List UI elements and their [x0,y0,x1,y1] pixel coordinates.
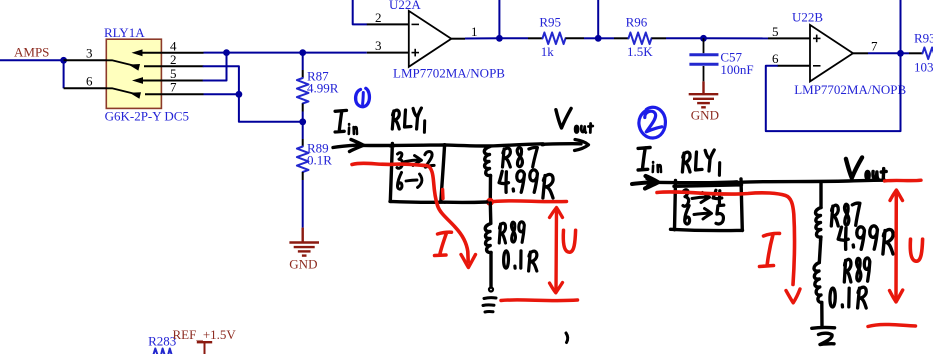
node junction at C57 [700,35,707,42]
svg-text:6: 6 [86,74,93,89]
node junction at R87 top [299,49,306,56]
label U22B [792,10,823,25]
annotation input arrow 2 [632,176,658,189]
annotation wire mid 1 [489,203,493,223]
wire feedback loop U22B [766,0,901,131]
resistor R96 [629,33,652,45]
wire node up offscreen [597,0,599,38]
annotation wire top 1 [362,144,581,146]
annotation 4.99R label 2 [838,226,893,254]
annotation red tick 1 [441,190,445,199]
pin 5 of U22B [768,24,810,39]
annotation Iin label 1 [335,110,357,134]
op-amp U22A [409,11,452,67]
wire junction down to pin 6 [63,60,65,88]
relay contact arrow row 5 [132,77,161,84]
pin 1 of U22A [451,24,477,39]
net label AMPS [14,45,49,60]
svg-text:U22B: U22B [792,10,823,25]
op-amp U22B [810,25,853,82]
label R283 [148,334,176,349]
svg-text:7: 7 [170,80,177,95]
label GND right [691,108,719,123]
power symbol REF_+1.5V [197,342,212,354]
annotation red U arrow 2 [890,190,903,302]
annotation R89 label 2 [844,258,870,282]
relay RLY1A designator [104,25,145,40]
annotation ground 1 [483,288,496,313]
resistor R93 [923,48,933,60]
svg-text:4.99R: 4.99R [307,81,339,96]
svg-text:U22A: U22A [389,0,421,12]
relay armature from pin 3 [106,60,137,66]
svg-text:6: 6 [772,51,779,66]
annotation 0.1R label 2 [830,287,866,308]
svg-text:GND: GND [691,108,719,123]
label 1.5K [627,44,653,59]
node U22B output junction [897,50,904,57]
pin 7 of U22B [853,39,878,54]
relay RLY1A part number G6K-2P-Y DC5 [105,109,189,124]
annotation Vout label 1 [556,108,593,132]
pin 3 of U22A [367,38,409,53]
annotation circled 1 [356,88,370,106]
capacitor C57 [689,38,718,94]
svg-text:R93: R93 [914,31,933,46]
annotation wire box to junction 1 [445,200,487,204]
annotation wire top 2 [653,180,885,183]
annotation red current path 1 [352,163,476,267]
pin 4 of RLY1A [161,39,203,54]
node junction pin4/pin5 [223,49,230,56]
pin 3 of RLY1A [64,46,107,61]
wire output to R95 [499,37,542,39]
relay RLY1A body [106,39,161,108]
pin 2 of U22A [367,10,409,25]
node junction pin7 on vertical [236,91,243,98]
annotation 6 to 5 label [685,205,724,224]
resistor R87 [297,78,309,104]
relay armature from pin 6 [106,88,138,94]
label LMP7702MA/NOPB upper [393,66,505,81]
label 103 [914,60,933,75]
annotation 6 to 7 label [397,173,421,190]
wire pin5 up to pin4 row [204,53,227,81]
label R95 [539,15,561,30]
relay contact arrow row 7 [130,92,162,99]
label 0.1R [307,153,332,168]
svg-text:2: 2 [170,52,177,67]
annotation resistor R89 coil 2 [814,263,822,326]
svg-text:1.5K: 1.5K [627,44,653,59]
annotation ground 2 [812,327,835,344]
pin 5 of RLY1A [161,66,203,81]
svg-text:G6K-2P-Y DC5: G6K-2P-Y DC5 [105,109,189,124]
node junction R87/R89 [299,118,306,125]
pin 6 of U22B [772,51,810,66]
node junction R95/R96 [595,35,602,42]
relay contact arrow row 4 [132,49,162,56]
annotation red U arrow 1 [550,208,563,293]
label 4.99R [307,81,339,96]
annotation R87 label 2 [831,203,860,226]
annotation 3 to 2 label [397,151,434,168]
svg-text:LMP7702MA/NOPB: LMP7702MA/NOPB [794,82,906,97]
resistor R283 partial [152,349,174,354]
annotation 0.1R label 1 [504,251,537,271]
wire U22A output [465,37,499,39]
annotation red I label 1 [435,232,452,255]
svg-text:103: 103 [914,60,933,75]
wire AMPS to junction [0,59,64,61]
svg-text:REF_+1.5V: REF_+1.5V [173,327,237,342]
svg-text:3: 3 [86,46,93,61]
annotation red current path 2 [657,192,800,303]
annotation red junction dot 1 [486,198,494,206]
svg-text:LMP7702MA/NOPB: LMP7702MA/NOPB [393,66,505,81]
svg-text:R96: R96 [626,15,648,30]
wire C57 node to pin5 [704,37,769,39]
svg-text:R95: R95 [539,15,561,30]
annotation input arrow 1 [333,140,364,152]
svg-text:0.1R: 0.1R [307,153,332,168]
annotation red underline Vout 2 [885,178,922,182]
resistor R89 [297,147,309,173]
annotation Vout arrow 1 [575,140,589,151]
svg-text:2: 2 [375,10,382,25]
annotation resistor R89 coil 1 [485,224,491,288]
annotation 4.99R label 1 [499,170,553,198]
annotation relay box 1 [390,143,445,202]
node junction at AMPS split [60,57,67,64]
annotation red bracket bottom 1 [501,298,578,302]
wire pin2 down to R89 node [204,66,303,122]
annotation RLY1 label 2 [682,150,719,175]
resistor R95 [543,33,566,45]
svg-text:GND: GND [289,257,317,272]
label REF_+1.5V [173,327,237,342]
annotation relay box 2 [671,179,743,231]
annotation red U label 1 [563,230,575,252]
annotation Vout label 2 [846,157,886,179]
annotation R89 label 1 [499,222,524,243]
label 100nF [720,62,753,77]
annotation 3 to 4 label [683,190,722,206]
annotation R87 label 1 [503,147,538,167]
label GND left [289,257,317,272]
wire pin7 to vertical [204,93,239,95]
wire R87 top [302,53,304,78]
label R93 [914,31,933,46]
label U22A [389,0,421,12]
wire R87 to node [302,104,304,122]
svg-text:3: 3 [375,38,382,53]
annotation red line bottom 2 [868,324,916,326]
svg-text:7: 7 [871,39,878,54]
label C57 [720,50,742,65]
wire node to R96 [598,37,628,39]
pin 7 of RLY1A [161,80,203,95]
svg-text:1: 1 [471,24,478,39]
pin 2 of RLY1A [161,52,203,67]
relay contact arrow row 2 [129,64,162,71]
ground symbol GND right [689,94,719,107]
annotation circled 2 [639,107,666,138]
annotation stray mark [566,333,568,343]
node U22A output junction [496,35,503,42]
annotation RLY1 label 1 [392,108,424,132]
pin 6 of RLY1A [64,74,107,89]
annotation resistor R87 coil 1 [484,147,490,200]
wire U22B output [868,52,901,54]
annotation wire R87 top 2 [819,183,822,208]
label R89 [307,141,329,156]
wire R96 to C57 node [652,37,704,39]
wire R89 to ground [302,172,304,243]
wire feedback up from output [498,0,500,38]
label 1k [541,44,555,59]
annotation Iin label 2 [638,148,661,173]
wire node to R89 [302,122,304,147]
svg-text:RLY1A: RLY1A [104,25,145,40]
annotation red I label 2 [760,233,780,266]
annotation resistor R87 coil 2 [816,208,822,263]
svg-text:100nF: 100nF [720,62,753,77]
svg-text:AMPS: AMPS [14,45,49,60]
svg-text:1k: 1k [541,44,555,59]
wire output to R93 [901,52,923,54]
wire feedback into pin 2 [353,0,367,24]
label LMP7702MA/NOPB lower [794,82,906,97]
svg-text:5: 5 [772,24,779,39]
label R87 [307,69,329,84]
wire R95 to node [566,37,599,39]
ground symbol GND left [289,243,319,256]
annotation red U label 2 [910,239,922,261]
wire pin4 row to op-amp input [204,52,367,54]
annotation red bracket top 1 [494,199,567,203]
label R96 [626,15,648,30]
